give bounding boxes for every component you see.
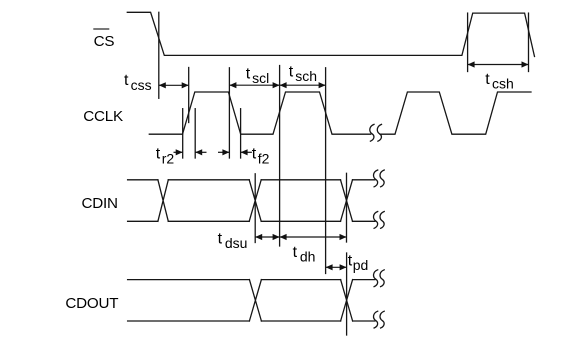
arrow tf2 outside left [218, 151, 229, 153]
CDOUT waveform high line [128, 279, 375, 281]
arrow tsch [280, 84, 326, 86]
svg-text:tsch: tsch [289, 64, 317, 85]
CDIN break squiggle high [374, 170, 378, 187]
CDOUT break squiggle low [374, 311, 378, 328]
CCLK waveform right [380, 92, 531, 134]
marker tcsh left [467, 13, 469, 71]
svg-text:CDIN: CDIN [82, 195, 118, 212]
marker tscl right (CCLK rise2 mid) [279, 66, 281, 247]
CCLK break squiggle [370, 124, 374, 141]
marker tdsu left (CDIN X2) [254, 174, 256, 243]
arrow tdsu [255, 236, 279, 238]
CDOUT crossing X1 [249, 280, 261, 321]
svg-text:tdh: tdh [293, 244, 316, 265]
arrow tcsh [468, 64, 529, 66]
marker tcss left [158, 12, 160, 98]
CDIN break squiggle low [374, 212, 378, 229]
CDIN waveform low line [128, 220, 375, 222]
arrow tpd [326, 266, 347, 268]
CDIN crossing X2 [249, 180, 261, 222]
marker tdh right (CDIN X3) [346, 173, 348, 242]
CDOUT break squiggle high [374, 270, 378, 287]
arrow tscl [229, 84, 279, 86]
marker tscl left (CCLK fall1) [228, 68, 230, 158]
svg-text:tscl: tscl [246, 65, 270, 86]
CS waveform [127, 12, 534, 56]
tick tf2 right [240, 109, 242, 158]
CDOUT crossing X2 [341, 280, 353, 321]
svg-text:tr2: tr2 [156, 146, 175, 167]
marker tcss right (CCLK rise1 mid) [188, 68, 190, 123]
arrow tr2 outside left [174, 151, 183, 153]
arrow tcss [159, 84, 189, 86]
CDIN waveform high line [128, 179, 375, 181]
svg-text:tcss: tcss [124, 72, 152, 93]
arrow tr2 outside right [195, 151, 206, 153]
svg-text:tdsu: tdsu [218, 230, 248, 251]
svg-text:CS: CS [94, 33, 115, 50]
arrow tdh [280, 236, 347, 238]
CDIN crossing X1 [158, 180, 168, 222]
tick tr2 right [194, 109, 196, 158]
CDOUT waveform low line [128, 320, 375, 322]
tick tr2 left [182, 109, 184, 158]
svg-text:tpd: tpd [348, 252, 369, 273]
marker tcsh right [528, 13, 530, 71]
arrow tf2 outside right [241, 151, 252, 153]
CCLK waveform left [149, 92, 370, 134]
marker tpd right (CDOUT X2) [346, 253, 348, 335]
svg-text:tf2: tf2 [252, 146, 270, 167]
CDIN crossing X3 [341, 180, 353, 222]
svg-text:CCLK: CCLK [83, 108, 123, 125]
svg-text:CDOUT: CDOUT [65, 295, 118, 312]
marker tsch right (CCLK fall2 mid) [325, 68, 327, 274]
svg-text:tcsh: tcsh [485, 71, 513, 92]
